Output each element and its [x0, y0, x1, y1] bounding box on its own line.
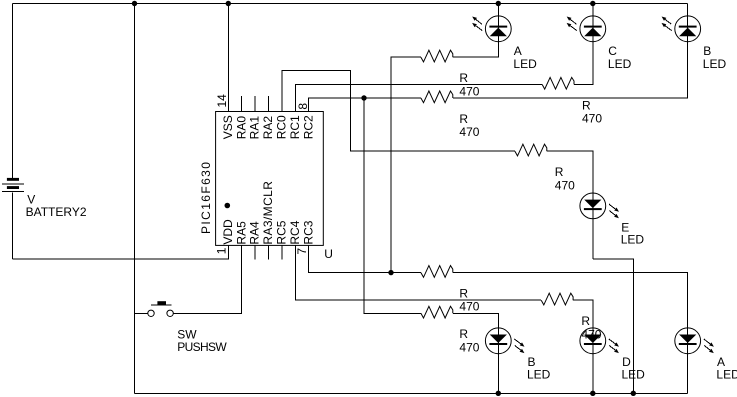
wire R5 to LED A bottom	[453, 273, 688, 394]
svg-text:R: R	[459, 112, 468, 126]
resistor R3	[421, 91, 453, 103]
wire R4 to LED E	[547, 151, 593, 259]
wire VSS pin 14 to ground rail	[227, 4, 229, 112]
wire VDD battery to pin 1	[13, 245, 229, 259]
IC pin stub RA0	[241, 96, 243, 112]
junction LED B bottom at ground rail	[496, 391, 501, 396]
svg-text:R: R	[459, 71, 468, 85]
svg-text:VSS: VSS	[221, 115, 235, 139]
junction ground rail at LED C top	[590, 1, 595, 6]
wire left ground vertical	[134, 4, 136, 394]
wire RC3 branch up	[391, 57, 421, 272]
svg-text:RC0: RC0	[275, 115, 289, 139]
wire junction to R5	[391, 272, 421, 274]
svg-text:PUSHSW: PUSHSW	[177, 340, 227, 354]
resistor R6	[541, 293, 573, 305]
LED D	[580, 328, 619, 354]
resistor R7	[421, 306, 453, 318]
IC pin stub RA3/MCLR	[268, 245, 270, 259]
svg-text:7: 7	[295, 248, 309, 255]
junction LED E drain at ground rail	[631, 391, 636, 396]
junction LED D at ground rail	[590, 391, 595, 396]
svg-text:RC5: RC5	[275, 220, 289, 244]
LED C	[567, 16, 606, 42]
IC pin stub RA4	[254, 245, 256, 259]
resistor R5	[421, 266, 453, 278]
svg-text:RC4: RC4	[288, 220, 302, 244]
svg-text:RC1: RC1	[288, 115, 302, 139]
wire RA5 to switch	[173, 245, 241, 313]
svg-text:R: R	[582, 98, 591, 112]
svg-text:470: 470	[459, 125, 479, 139]
svg-text:1: 1	[215, 247, 229, 254]
svg-text:LED: LED	[703, 57, 727, 71]
svg-text:LED: LED	[622, 368, 646, 382]
wire switch to ground	[135, 312, 148, 314]
svg-text:LED: LED	[716, 368, 737, 382]
wire RC3 pin 7 to junction	[309, 245, 391, 272]
svg-text:470: 470	[459, 84, 479, 98]
svg-text:U: U	[324, 247, 333, 261]
wire RC4 to R6	[295, 245, 541, 300]
svg-text:R: R	[459, 327, 468, 341]
wire junction to R3	[364, 97, 421, 99]
svg-text:470: 470	[459, 300, 479, 314]
op-amp U1 IC U PIC16F630 box	[216, 112, 324, 246]
svg-text:RC3: RC3	[301, 220, 315, 244]
svg-text:LED: LED	[527, 368, 551, 382]
svg-text:BATTERY2: BATTERY2	[26, 205, 87, 219]
svg-text:RA3/MCLR: RA3/MCLR	[261, 181, 275, 245]
wire R1 to LED A top	[453, 4, 499, 58]
svg-text:LED: LED	[608, 57, 632, 71]
svg-text:R: R	[581, 314, 590, 328]
wire top ground rail	[13, 3, 688, 5]
wire RC2 to junction	[309, 98, 364, 112]
svg-text:470: 470	[582, 112, 602, 126]
svg-text:14: 14	[215, 94, 229, 108]
switch SW PUSHSW	[148, 301, 174, 316]
wire R3 to LED B top	[453, 4, 688, 99]
svg-text:RA1: RA1	[248, 116, 262, 140]
IC pin stub RA1	[254, 96, 256, 112]
junction RC3 node	[388, 270, 393, 275]
svg-text:470: 470	[555, 178, 575, 192]
svg-text:RA0: RA0	[234, 116, 248, 140]
LED A bottom	[675, 328, 714, 354]
junction ground rail at LED A top	[496, 1, 501, 6]
svg-text:LED: LED	[513, 57, 537, 71]
IC pin stub RA2	[268, 96, 270, 112]
battery V BATTERY2	[2, 4, 24, 260]
LED B bottom	[485, 328, 524, 354]
junction RC2 node	[361, 95, 366, 100]
wire R6 to LED D	[573, 300, 593, 393]
svg-text:R: R	[555, 165, 564, 179]
svg-text:R: R	[459, 287, 468, 301]
LED A top	[472, 16, 511, 42]
svg-text:RA5: RA5	[234, 221, 248, 245]
svg-text:8: 8	[296, 103, 310, 110]
svg-text:LED: LED	[621, 233, 645, 247]
wire R2 to LED C	[574, 4, 593, 85]
svg-text:470: 470	[459, 340, 479, 354]
svg-text:PIC16F630: PIC16F630	[199, 161, 213, 234]
junction ground rail at left vertical	[132, 1, 137, 6]
svg-text:RA4: RA4	[248, 221, 262, 245]
IC polarity dot	[225, 203, 231, 209]
svg-text:VDD: VDD	[221, 219, 235, 245]
wire RC2 branch down	[364, 98, 421, 313]
resistor R1	[421, 50, 453, 62]
wire RC0 up and over	[282, 71, 515, 152]
wire R7 to LED B bottom	[453, 313, 499, 393]
wire RC1 to R2	[295, 84, 542, 111]
svg-text:RC2: RC2	[301, 115, 315, 139]
LED B top	[662, 16, 701, 42]
svg-text:RA2: RA2	[261, 116, 275, 140]
junction ground rail at VSS	[226, 1, 231, 6]
wire LED E cathode to ground	[593, 259, 634, 393]
resistor R2	[542, 77, 574, 89]
IC pin stub RC5	[281, 245, 283, 259]
wire bottom ground rail	[135, 392, 688, 394]
LED E	[580, 193, 619, 219]
resistor R4	[515, 144, 547, 156]
